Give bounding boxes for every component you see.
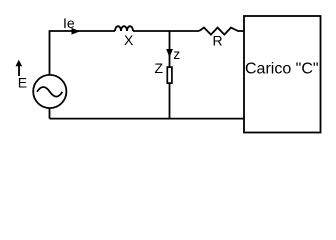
svg-text:X: X [124, 32, 134, 48]
svg-text:z: z [173, 46, 180, 62]
wire bottom rail [50, 118, 245, 120]
impedance Z [167, 67, 172, 83]
svg-text:Carico "C": Carico "C" [245, 61, 319, 78]
voltage source E [33, 75, 66, 108]
current arrow Ie [72, 28, 81, 35]
wire top rail (inductor to resistor) [133, 30, 199, 32]
wire Z branch lower [169, 83, 171, 119]
arrow E polarity [16, 60, 23, 76]
wire left vertical (source to top rail) [50, 31, 116, 76]
wire Z branch upper [169, 31, 171, 67]
resistor R [199, 28, 244, 35]
inductor X [115, 26, 133, 31]
wire source bottom [49, 108, 51, 119]
load box Carico "C" [244, 16, 321, 133]
svg-text:E: E [18, 75, 27, 91]
current arrow z [166, 49, 173, 58]
svg-text:R: R [213, 32, 223, 48]
svg-text:Z: Z [155, 60, 164, 76]
